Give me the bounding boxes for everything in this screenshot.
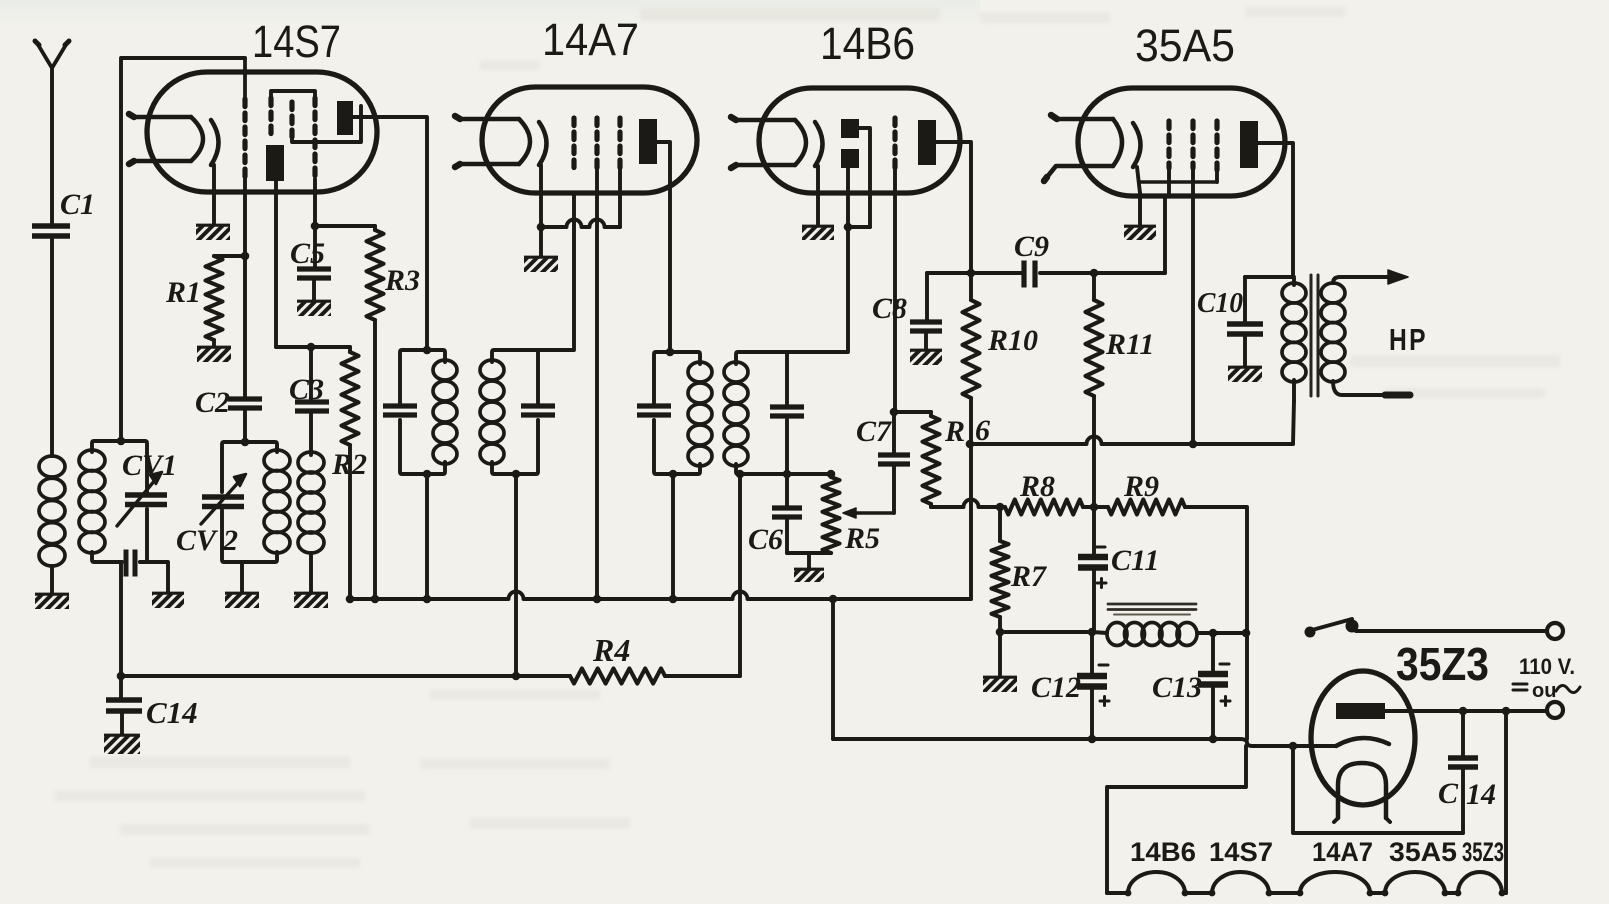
terminal 110V line 1: [1547, 623, 1563, 639]
label ou: [1513, 680, 1580, 702]
svg-text:C10: C10: [1197, 287, 1243, 319]
resistor R3: [367, 230, 384, 320]
label C5: [290, 237, 325, 270]
label 110V: [1519, 654, 1575, 679]
wire grid4 node to R3: [315, 224, 375, 228]
tube 14B6 envelope: [759, 88, 960, 193]
output transformer primary: [1282, 277, 1306, 401]
ground R7: [983, 676, 1017, 692]
wire anode 14S7 to IF1: [353, 117, 427, 350]
wire R10 to B+ rail and bus: [969, 398, 973, 599]
wire cathode 14S7 to ground: [212, 165, 216, 224]
wire R11 top: [1090, 269, 1099, 300]
wire R5 ground stem: [807, 553, 811, 568]
node grid4 junction: [311, 222, 320, 231]
heater string: [1107, 872, 1506, 896]
svg-text:14A7: 14A7: [542, 14, 639, 65]
anode 14S7: [337, 101, 353, 135]
ground C10: [1228, 366, 1262, 382]
svg-text:C9: C9: [1014, 230, 1049, 263]
wire IF1 primary to bus: [423, 346, 432, 604]
capacitor C7: [878, 412, 910, 513]
wire anode 14A7 to IF2: [657, 142, 674, 356]
wire speaker bottom: [1342, 393, 1410, 397]
svg-text:CV 2: CV 2: [176, 524, 238, 557]
capacitor C12: [1077, 632, 1107, 743]
capacitor C5: [297, 226, 331, 300]
svg-text:14S7: 14S7: [1209, 837, 1273, 867]
label CV1: [122, 449, 177, 482]
svg-text:HP: HP: [1389, 322, 1428, 357]
wire diode tie: [844, 223, 870, 232]
wire AVC line left: [931, 500, 1005, 507]
ground C8: [910, 349, 942, 365]
wire B+ rail: [966, 437, 1293, 449]
label C12: [1031, 671, 1081, 704]
label 14S7 heater: [1209, 837, 1273, 867]
resistor R10: [963, 300, 980, 398]
wire CV2 to ground: [240, 562, 244, 592]
svg-text:C7: C7: [856, 415, 892, 448]
label R5: [844, 522, 880, 555]
svg-text:C13: C13: [1152, 671, 1202, 704]
svg-text:35Z3: 35Z3: [1462, 837, 1504, 867]
label R1: [165, 276, 201, 309]
filter choke L: [1092, 623, 1247, 646]
label R10: [987, 324, 1038, 357]
svg-text:C14: C14: [146, 695, 198, 730]
IF2 secondary coil: [724, 362, 748, 466]
suppressor tie 35A5: [1140, 180, 1217, 183]
tube 35A5 envelope: [1078, 88, 1285, 196]
heater 14S7: [129, 114, 203, 164]
svg-text:C12: C12: [1031, 671, 1081, 704]
svg-text:R: R: [944, 415, 965, 448]
wire R7 ground stem: [998, 632, 1002, 676]
junction AVC C14: [117, 672, 126, 681]
cathode 14B6: [815, 122, 823, 166]
junction choke right: [1242, 629, 1251, 638]
capacitor C14 output: [1448, 711, 1478, 833]
wire C14 return: [1289, 742, 1463, 833]
cathode 14S7: [211, 120, 219, 165]
label R7: [1010, 560, 1047, 593]
wire osc anode to R2: [276, 343, 350, 352]
cathode tie 14A7: [537, 220, 620, 232]
wire anode 14B6 to C9 node: [936, 142, 975, 277]
svg-text:C5: C5: [290, 237, 325, 270]
wire R3 top: [373, 226, 377, 230]
svg-text:C6: C6: [748, 523, 783, 556]
IF1 primary tank box: [400, 350, 445, 474]
svg-text:C: C: [1438, 777, 1459, 810]
transformer core: [1311, 275, 1318, 396]
wire R9 node drop: [1245, 633, 1249, 739]
output transformer secondary: [1321, 277, 1345, 395]
capacitor C10: [1227, 277, 1263, 366]
wire R9 to power node: [1185, 507, 1247, 633]
label R8: [1019, 470, 1055, 503]
capacitor C14: [106, 676, 142, 734]
wire diode junction to IF2 top: [847, 227, 848, 352]
ground 14A7 cathode: [524, 256, 558, 272]
svg-text:ou: ou: [1532, 680, 1556, 702]
resistor R11: [1086, 300, 1103, 396]
svg-text:R3: R3: [384, 264, 420, 297]
label C2: [195, 386, 230, 419]
capacitor C3: [295, 347, 329, 455]
junction C2 CV2: [241, 438, 250, 447]
svg-text:C1: C1: [60, 188, 95, 221]
wire C10 node: [1245, 275, 1293, 279]
svg-text:110 V.: 110 V.: [1519, 654, 1575, 679]
ground R5: [794, 568, 824, 582]
IF2 primary capacitor: [637, 406, 671, 415]
ground R1: [197, 346, 231, 362]
label C13: [1152, 671, 1202, 704]
svg-text:C11: C11: [1111, 544, 1159, 577]
anode 14B6: [918, 120, 936, 165]
ground 14B6 cathode: [802, 225, 834, 240]
wire IF1 secondary to grid 14A7: [553, 193, 574, 350]
svg-text:14S7: 14S7: [252, 16, 341, 67]
svg-text:CV1: CV1: [122, 449, 177, 482]
resistor R2: [342, 352, 359, 445]
IF2 primary tank box: [654, 352, 700, 474]
wire speaker top: [1340, 270, 1408, 284]
wire grid node to R6: [894, 410, 931, 414]
svg-text:35A5: 35A5: [1135, 20, 1235, 71]
wire R1 tie: [214, 252, 249, 261]
grid 14B6: [892, 118, 897, 412]
heater 14B6: [731, 117, 806, 168]
wire osc anode down: [274, 181, 278, 347]
wire C9 line: [927, 271, 1165, 275]
svg-text:14B6: 14B6: [1130, 837, 1196, 867]
svg-text:35Z3: 35Z3: [1396, 638, 1489, 690]
wire R2 to bus: [346, 347, 355, 603]
cathode 35A5: [1133, 123, 1141, 167]
variable capacitor CV2 plates: [202, 497, 244, 507]
wire R10 top: [969, 273, 973, 300]
capacitor C13: [1198, 629, 1228, 744]
grid2 14A7: [593, 118, 602, 603]
label CV2: [176, 524, 238, 557]
diode plate 1 14B6: [841, 119, 859, 138]
svg-text:R1: R1: [165, 276, 201, 309]
choke core: [1108, 604, 1196, 615]
anode 35Z3: [1336, 703, 1385, 719]
heater 14A7: [455, 116, 530, 167]
svg-text:R5: R5: [844, 522, 880, 555]
ground 35A5 cathode: [1124, 225, 1156, 240]
resistor R1: [206, 256, 223, 340]
wire B- bus: [350, 592, 971, 600]
osc step wire 14S7: [292, 106, 361, 142]
wire grid1 top link: [121, 58, 245, 441]
wire 35A5 grid drop: [1163, 196, 1167, 273]
IF1 secondary coil: [480, 360, 504, 464]
wire R11 bottom: [1092, 396, 1096, 507]
capacitor C1: [32, 226, 70, 456]
wire diode2 lead: [846, 168, 850, 227]
label C10: [1197, 287, 1243, 319]
resistor R9: [1108, 500, 1185, 515]
ground CV1: [152, 592, 184, 608]
wiper arrow R5: [843, 508, 894, 518]
filament 35Z3: [1334, 763, 1390, 822]
grid1 14A7: [571, 118, 576, 168]
wire antenna coil to ground: [50, 566, 54, 593]
label R9: [1123, 470, 1159, 503]
tube 35Z3 envelope: [1311, 671, 1415, 805]
grid shield bracket 14S7: [271, 91, 315, 99]
svg-text:14B6: 14B6: [820, 18, 915, 69]
diode plate 2 14B6: [841, 149, 859, 168]
IF1 primary coil: [433, 360, 457, 464]
grid2 14S7: [268, 98, 273, 137]
IF2 primary coil: [688, 362, 712, 466]
junction CV1 top: [117, 437, 126, 446]
tube 14A7 envelope: [482, 87, 697, 193]
grid1 14S7: [242, 58, 247, 256]
capacitor C9: [1024, 261, 1035, 288]
label 14A7 heater: [1312, 837, 1373, 867]
wire IF2 secondary to AVC: [736, 470, 745, 676]
wire plate 35Z3 to terminal: [1385, 707, 1546, 716]
wire anode 35A5 to output transformer: [1258, 143, 1293, 277]
svg-text:C3: C3: [289, 373, 324, 406]
wire IF2 primary to bus: [669, 470, 678, 604]
svg-text:R7: R7: [1010, 560, 1047, 593]
series padder capacitor: [126, 550, 135, 577]
label R3: [384, 264, 420, 297]
junction C11 choke: [1088, 628, 1097, 637]
label C9: [1014, 230, 1049, 263]
label C11: [1111, 544, 1159, 577]
coil CV2: [264, 450, 290, 553]
antenna coil L1: [39, 456, 65, 566]
resistor R7: [992, 503, 1009, 617]
wire primary bottom to B+ rail: [1293, 401, 1294, 444]
svg-text:14: 14: [1466, 778, 1496, 811]
grid3 35A5: [1214, 121, 1219, 182]
grid3 14S7: [289, 102, 294, 137]
resistor R6: [923, 416, 940, 504]
grid3 14A7: [617, 118, 622, 227]
label C1: [60, 188, 95, 221]
wire R1 to ground: [212, 340, 216, 346]
wire heater string right: [1504, 711, 1508, 893]
label 35Z3 heater: [1462, 837, 1504, 867]
resistor R4: [570, 669, 665, 684]
wire R6 top: [929, 412, 933, 416]
ground C5: [297, 300, 331, 316]
osc anode 14S7: [266, 145, 284, 181]
svg-text:R10: R10: [987, 324, 1038, 357]
wire cathode 35A5 down: [1137, 167, 1140, 225]
grid2 35A5: [1189, 121, 1198, 448]
label C14: [146, 695, 198, 730]
arrow CV1: [117, 472, 162, 526]
coil CV1 secondary: [79, 450, 105, 553]
label R2: [331, 448, 367, 481]
junction IF2 cap bottom: [783, 470, 792, 479]
tube 14S7 envelope: [147, 72, 377, 192]
wire R4 left: [512, 672, 570, 681]
capacitor C8: [910, 273, 942, 349]
polarity C12: [1099, 665, 1109, 706]
wire C6 to R5 bottom: [787, 551, 831, 555]
wire R5 top corner: [827, 470, 836, 479]
wire R3 to bus: [371, 320, 380, 603]
label C7: [856, 415, 892, 448]
antenna: [35, 41, 69, 226]
IF1 secondary capacitor: [521, 406, 555, 415]
capacitor C6: [772, 474, 802, 553]
wire bus drop to rectifier line: [829, 595, 838, 739]
variable capacitor CV1 plates: [125, 495, 167, 505]
label 14B6 heater: [1130, 837, 1196, 867]
polarity C13: [1220, 664, 1230, 706]
terminal 110V line 2: [1547, 702, 1563, 718]
IF1 secondary tank box: [492, 350, 553, 474]
ground CV2: [225, 592, 259, 608]
svg-text:C2: C2: [195, 386, 230, 419]
arrow CV2: [201, 474, 246, 524]
label 35A5: [1135, 20, 1235, 71]
oscillator coil L3: [298, 452, 324, 553]
capacitor C11: [1078, 507, 1108, 632]
wire rectifier line: [833, 739, 1336, 746]
IF2 secondary tank box: [736, 352, 847, 474]
wire heater feed drop: [1107, 746, 1246, 893]
wire cathode 14B6 down: [816, 166, 820, 225]
ground C14: [104, 734, 140, 754]
svg-text:R11: R11: [1105, 328, 1154, 361]
cathode 14A7: [539, 122, 547, 165]
label 35A5 heater: [1389, 837, 1457, 867]
label R4: [592, 632, 630, 668]
label C8: [872, 292, 907, 325]
junction grid 14B6 node: [890, 408, 899, 417]
capacitor C2: [228, 256, 262, 442]
label C6: [748, 523, 783, 556]
svg-text:R4: R4: [592, 632, 630, 668]
tuning box CV2 outline: [222, 442, 277, 562]
wire IF1 secondary to AVC: [512, 470, 521, 676]
ground antenna: [35, 593, 69, 609]
wire diode1 lead: [859, 128, 870, 227]
wire osc coil to ground: [309, 553, 313, 592]
label C3: [289, 373, 324, 406]
anode 14A7: [639, 119, 657, 164]
wire CV1 to AVC line: [119, 562, 123, 676]
grid1 35A5: [1166, 121, 1171, 196]
label R11: [1105, 328, 1154, 361]
filament top arc 35Z3: [1336, 738, 1389, 746]
label 14S7: [252, 16, 341, 67]
ground 14S7 cathode: [196, 224, 230, 240]
IF1 primary capacitor: [383, 406, 417, 415]
wire padder to ground: [140, 562, 168, 592]
svg-text:R8: R8: [1019, 470, 1055, 503]
svg-text:R9: R9: [1123, 470, 1159, 503]
wire R4 right: [665, 674, 740, 678]
label 14A7: [542, 14, 639, 65]
svg-text:14A7: 14A7: [1312, 837, 1373, 867]
polarity C11: [1096, 547, 1106, 588]
tuning box CV1 outline: [92, 441, 147, 562]
grid4 14S7: [312, 98, 317, 227]
label C14 output: [1438, 777, 1496, 811]
ground osc coil: [294, 592, 328, 608]
anode 35A5: [1240, 121, 1258, 168]
potentiometer R5: [823, 477, 840, 553]
wire R7 bottom node: [996, 617, 1092, 636]
heater 35A5: [1044, 115, 1122, 181]
svg-text:C8: C8: [872, 292, 907, 325]
svg-text:35A5: 35A5: [1389, 837, 1457, 867]
label HP: [1389, 322, 1428, 357]
resistor R8: [1005, 500, 1083, 515]
wire AVC left segment: [121, 674, 516, 678]
IF2 secondary capacitor: [770, 407, 804, 416]
label 14B6: [820, 18, 915, 69]
switch S1: [1305, 619, 1547, 638]
wire R8 to R9: [1083, 503, 1108, 512]
label 35Z3: [1396, 638, 1489, 690]
wire cathode 14A7 down: [539, 165, 543, 256]
label R6: [944, 414, 990, 448]
